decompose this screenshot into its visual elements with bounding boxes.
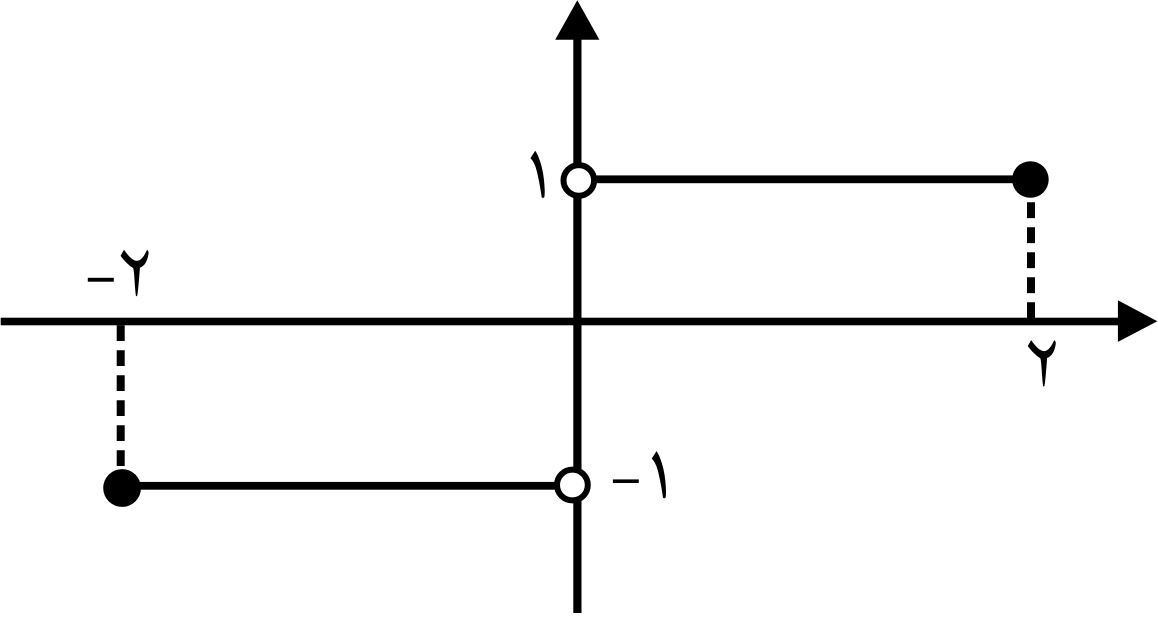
filled endpoint (-2,-1) (103, 469, 141, 507)
label "-2" (Arabic-Indic) at x=-2 : minus sign (88, 278, 114, 282)
open endpoint (0,1) (564, 165, 595, 196)
label "1" (Arabic-Indic) at (0,1) (530, 151, 544, 198)
segment y=-1 from x=-2 to x=0 (122, 482, 556, 490)
label "-1" (Arabic-Indic) at (0,-1) : minus sign (613, 479, 639, 483)
y-axis (573, 36, 581, 613)
y-axis arrowhead (555, 0, 599, 40)
label "2" (Arabic-Indic) at x=2 (1028, 340, 1056, 386)
x-axis arrowhead (1118, 300, 1157, 342)
open endpoint (0,-1) (557, 470, 588, 501)
label "-1" digit one (652, 451, 666, 498)
label "-2" digit two (121, 250, 149, 296)
x-axis (1, 318, 1119, 326)
segment y=1 from x=0 to x=2 (590, 175, 1031, 183)
dashed drop line at x=-2 (117, 325, 125, 466)
dashed drop line at x=2 (1027, 202, 1035, 321)
filled endpoint (2,1) (1012, 161, 1049, 198)
